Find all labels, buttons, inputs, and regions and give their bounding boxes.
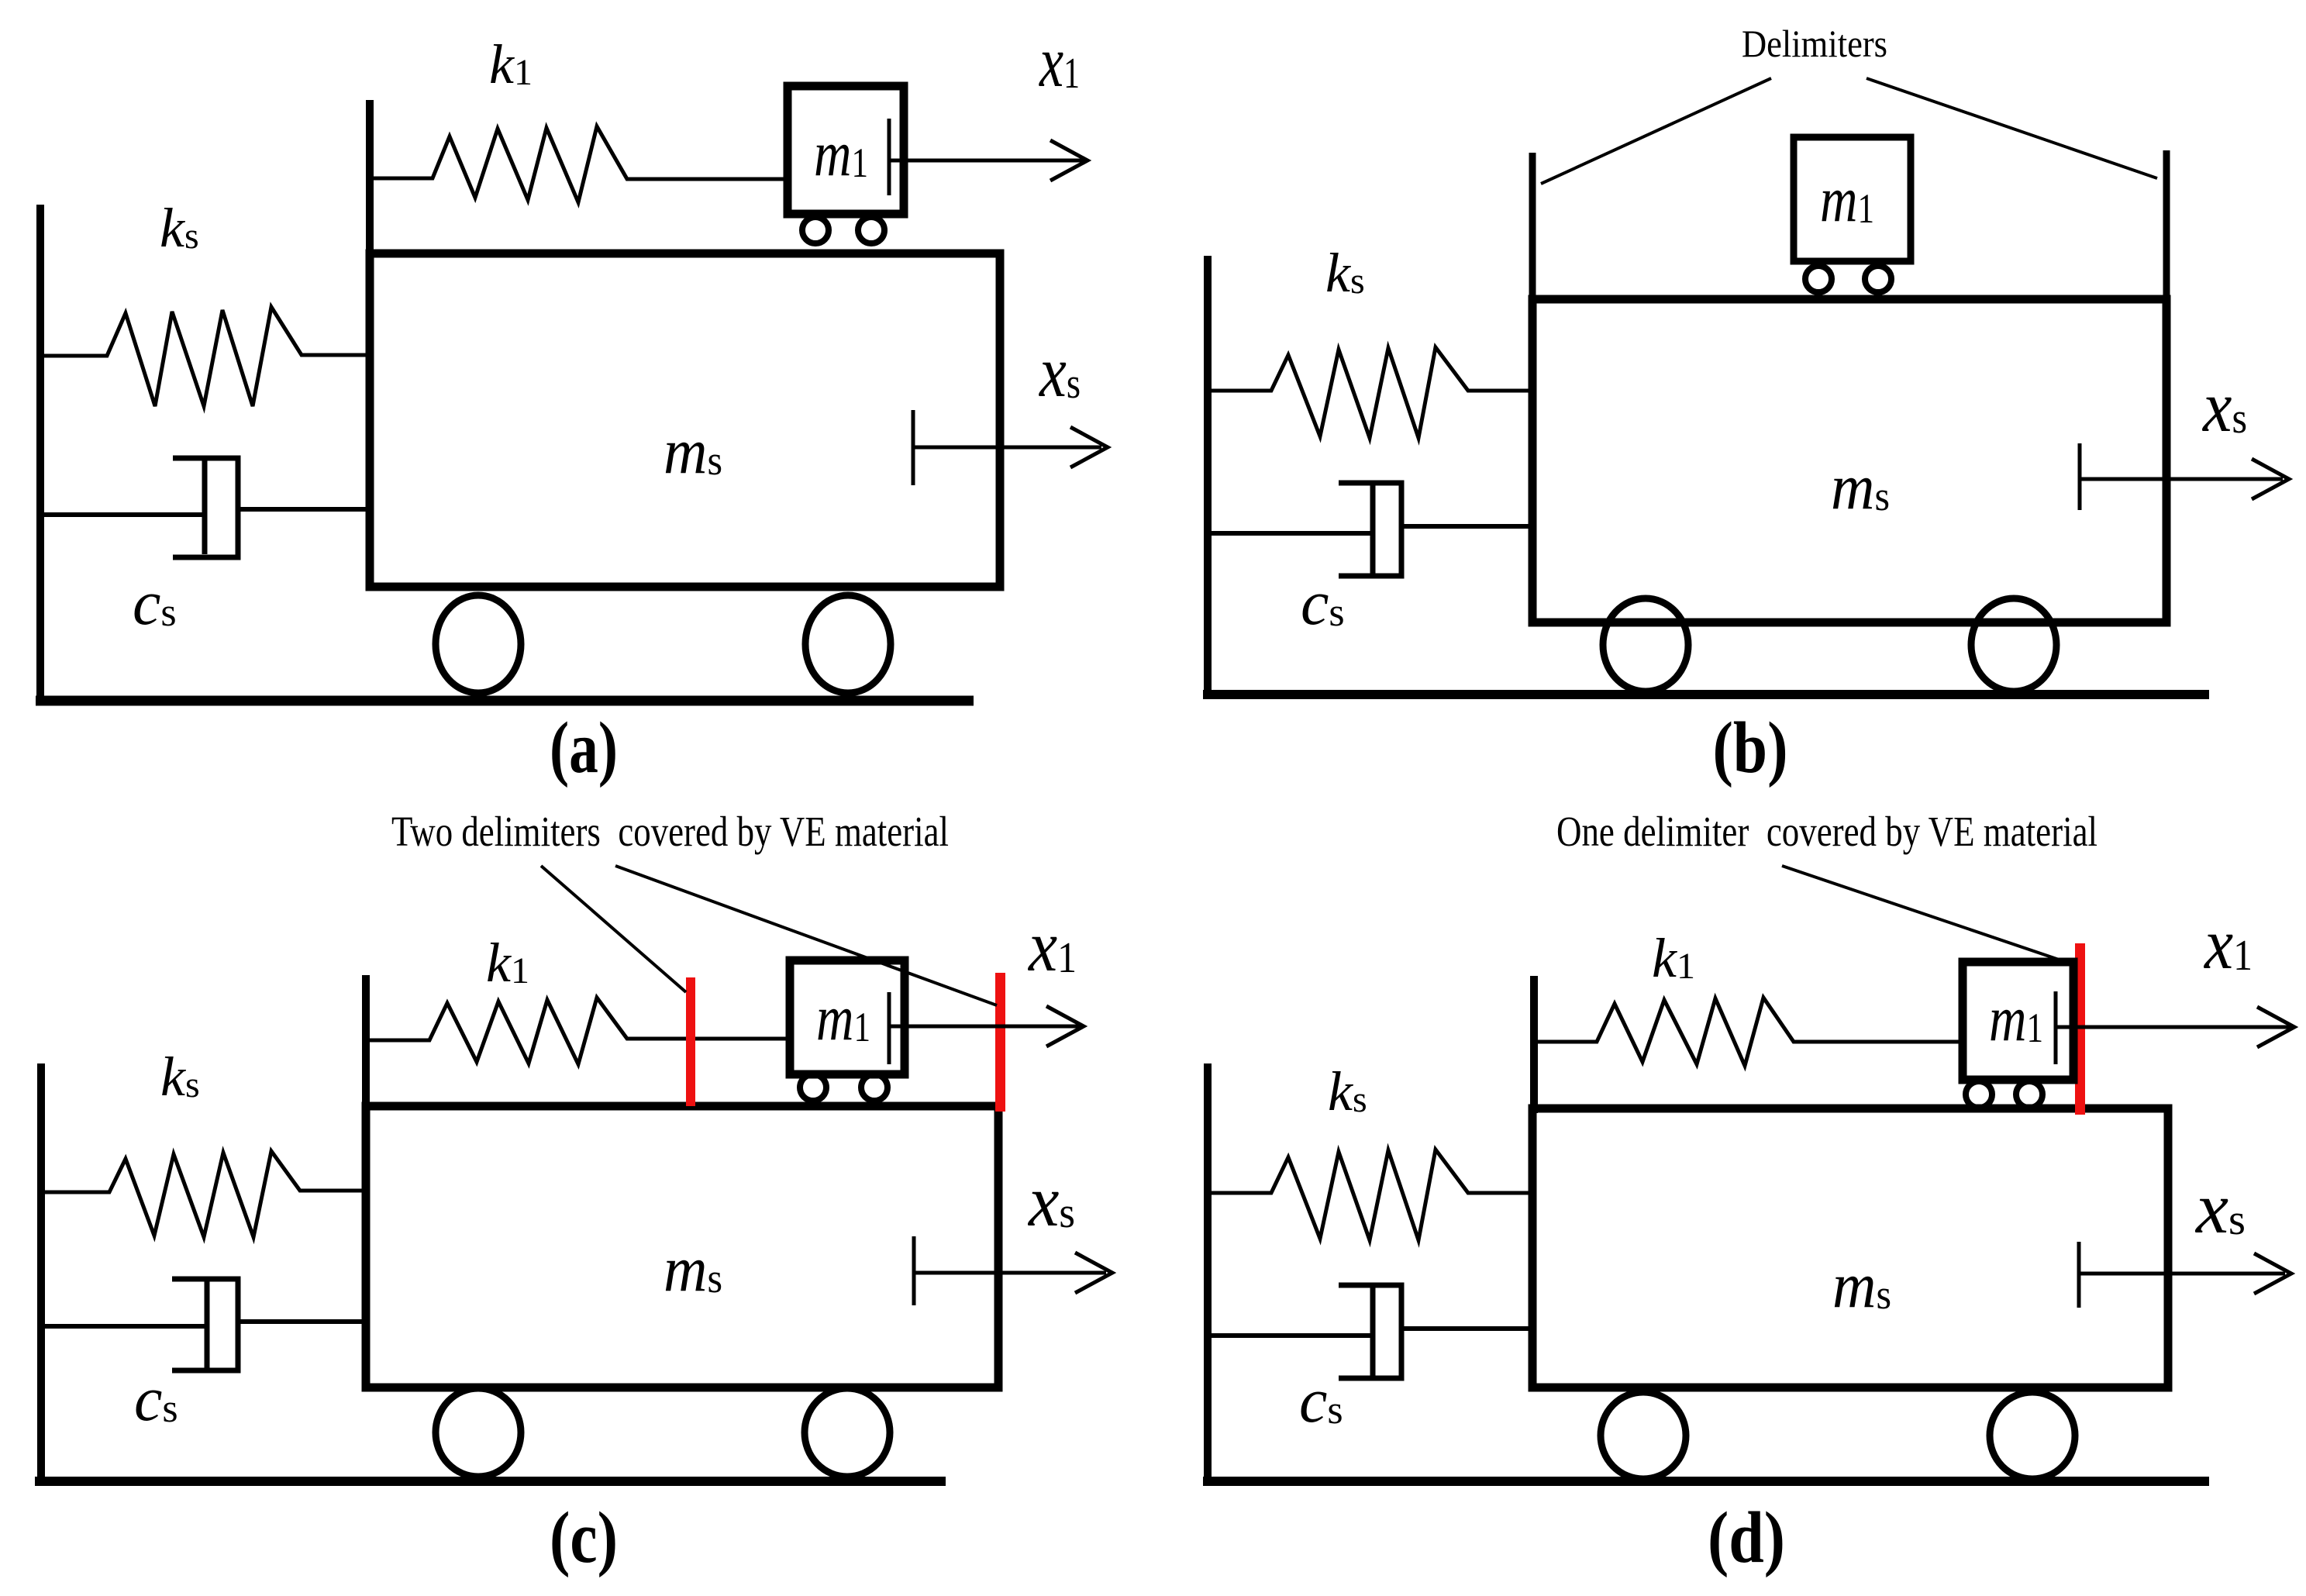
xs reference tick (a) <box>912 410 915 485</box>
mass ms box (b) <box>1532 299 2166 622</box>
left wall (c) <box>37 1063 45 1486</box>
leader line 1 (c) <box>541 866 686 992</box>
mass m1 box (b) <box>1794 137 1911 261</box>
ground (d) <box>1203 1477 2209 1486</box>
ground (c) <box>35 1477 946 1486</box>
cart wheel left (b) <box>1603 598 1688 691</box>
spring k1 (d) <box>1534 998 1963 1066</box>
spring k1 (a) <box>370 126 788 202</box>
mass m1 box (d) <box>1963 962 2073 1080</box>
svg-text:(c): (c) <box>550 1498 618 1578</box>
damper cs piston (d) <box>1370 1286 1376 1376</box>
m1 wheel right (c) <box>861 1074 888 1101</box>
cart wheel left (d) <box>1601 1392 1686 1479</box>
m1 wheel right (a) <box>858 217 884 243</box>
cart wheel left (a) <box>436 595 521 693</box>
svg-text:(b): (b) <box>1713 708 1788 788</box>
damper cs rod left (d) <box>1208 1333 1373 1338</box>
arrow xs (d) <box>2079 1272 2285 1276</box>
xs reference tick (d) <box>2077 1242 2081 1308</box>
delimiter post right (b) <box>2163 150 2170 299</box>
left wall (b) <box>1204 256 1212 698</box>
m1 reference tick (c) <box>888 992 891 1064</box>
damper cs rod right (b) <box>1401 524 1532 529</box>
damper cs rod right (a) <box>238 507 366 512</box>
xs reference tick (b) <box>2078 443 2082 510</box>
damper cs piston (b) <box>1370 484 1376 574</box>
arrow xs (c) <box>914 1271 1106 1275</box>
xs reference tick (c) <box>912 1236 916 1305</box>
svg-text:One delimiter covered by VE m: One delimiter covered by VE material <box>1556 808 2097 855</box>
leader line left (b) <box>1541 78 1771 184</box>
damper cs cylinder (b) <box>1339 483 1401 576</box>
m1 wheel left (b) <box>1805 266 1832 292</box>
left wall (d) <box>1204 1063 1212 1486</box>
damper cs piston (c) <box>205 1280 210 1368</box>
m1 wheel left (c) <box>800 1074 826 1101</box>
spring ks (a) <box>40 307 366 406</box>
arrow xs (a) <box>913 446 1101 450</box>
m1 reference tick (d) <box>2054 991 2058 1064</box>
cart wheel right (c) <box>805 1388 890 1477</box>
spring ks (b) <box>1208 347 1532 438</box>
damper cs rod right (c) <box>238 1319 366 1324</box>
m1 reference tick (a) <box>888 119 891 195</box>
cart wheel right (d) <box>1990 1392 2075 1479</box>
spring ks (d) <box>1208 1150 1532 1240</box>
delimiter post left (b) <box>1529 153 1536 299</box>
mass m1 box (c) <box>790 960 905 1074</box>
damper cs rod right (d) <box>1401 1326 1532 1331</box>
mass ms box (c) <box>366 1106 998 1387</box>
spring ks (c) <box>41 1151 366 1237</box>
mass m1 box (a) <box>788 86 904 214</box>
damper cs rod left (a) <box>40 512 205 517</box>
leader line (d) <box>1782 866 2075 965</box>
arrow xs (b) <box>2080 477 2283 481</box>
arrow x1 (d) <box>2056 1026 2290 1029</box>
m1 wheel left (a) <box>802 217 829 243</box>
ground (a) <box>36 696 974 706</box>
damper cs rod left (c) <box>41 1324 207 1329</box>
leader line 2 (c) <box>615 866 997 1005</box>
damper cs cylinder (d) <box>1339 1285 1401 1378</box>
svg-text:Two delimiters covered by VE: Two delimiters covered by VE material <box>391 808 949 855</box>
svg-text:(d): (d) <box>1708 1498 1785 1578</box>
arrow x1 (c) <box>889 1025 1080 1029</box>
cart wheel right (a) <box>805 595 891 693</box>
red delimiter bar (d) <box>2075 943 2085 1115</box>
svg-text:Delimiters: Delimiters <box>1742 22 1887 65</box>
post wall k1 (d) <box>1530 976 1538 1113</box>
damper cs rod left (b) <box>1208 531 1373 536</box>
leader line right (b) <box>1867 78 2157 178</box>
svg-text:(a): (a) <box>550 708 618 788</box>
spring k1 (c) <box>366 998 790 1064</box>
m1 wheel left (d) <box>1966 1081 1992 1108</box>
mass ms box (a) <box>370 253 1000 587</box>
ground (b) <box>1203 690 2209 699</box>
red delimiter bar left (c) <box>686 977 695 1106</box>
cart wheel left (c) <box>436 1388 521 1477</box>
damper cs cylinder (c) <box>172 1279 238 1370</box>
damper cs piston (a) <box>202 460 208 554</box>
post wall k1 (a) <box>366 100 374 258</box>
arrow x1 (a) <box>889 159 1084 163</box>
m1 wheel right (d) <box>2016 1081 2042 1108</box>
post wall k1 (c) <box>362 975 370 1111</box>
red delimiter bar right (c) <box>995 973 1005 1112</box>
cart wheel right (b) <box>1971 598 2056 691</box>
mass ms box (d) <box>1532 1108 2168 1387</box>
left wall (a) <box>36 205 44 705</box>
m1 wheel right (b) <box>1865 266 1891 292</box>
damper cs cylinder (a) <box>173 458 238 557</box>
